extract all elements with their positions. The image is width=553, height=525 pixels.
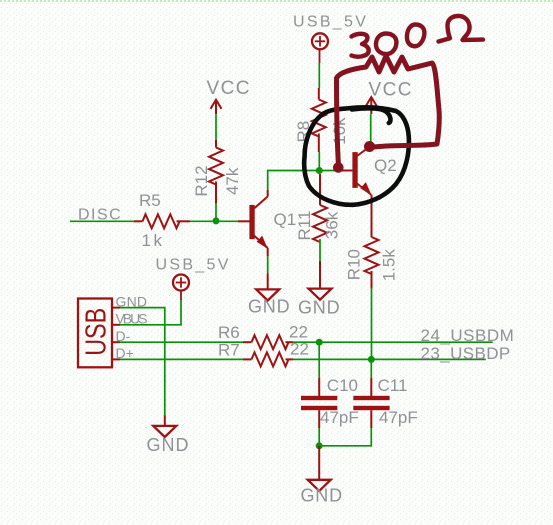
label 24_USBDM	[421, 326, 515, 345]
label VCC (left)	[207, 78, 251, 99]
annotation red blob at Q2 base	[333, 162, 344, 173]
label R7	[218, 340, 240, 359]
supply USB_5V (mid) symbol	[173, 275, 189, 301]
pin D+ stub	[112, 358, 120, 360]
label C10	[327, 376, 358, 395]
top border dotted green line	[0, 0, 553, 2]
svg-text:USB_5V: USB_5V	[156, 256, 231, 273]
svg-text:24_USBDM: 24_USBDM	[421, 326, 515, 345]
svg-text:47k: 47k	[223, 167, 242, 195]
svg-text:36k: 36k	[323, 211, 342, 239]
wire Q2 emitter to R10	[371, 195, 373, 238]
wire VCC to R12	[215, 114, 217, 140]
ground GND (R11)	[298, 261, 340, 317]
label R6	[218, 323, 240, 342]
svg-text:GND: GND	[147, 435, 190, 455]
svg-text:47pF: 47pF	[379, 408, 418, 427]
supply USB_5V (top) symbol	[312, 33, 328, 63]
annotation red box with resistor squiggle	[337, 56, 440, 167]
svg-text:GND: GND	[298, 297, 340, 317]
svg-text:R12: R12	[192, 165, 211, 196]
transistor Q2	[338, 146, 372, 195]
wire R5 to node B	[190, 220, 238, 222]
value 22 (R6)	[289, 323, 308, 342]
resistor R5	[134, 214, 190, 228]
pin D- label	[116, 328, 131, 344]
pin D+ label	[116, 345, 134, 361]
svg-text:GND: GND	[248, 297, 290, 317]
svg-text:C11: C11	[378, 376, 408, 395]
svg-text:R5: R5	[139, 191, 161, 210]
wire R12 to DISC net	[215, 204, 217, 222]
pin GND stub	[112, 307, 120, 309]
annotation red 300 text	[352, 25, 425, 57]
annotation red blob at Q2 collector	[364, 141, 375, 152]
value 1k (R5)	[142, 231, 165, 250]
node E junction (cap gnd)	[316, 442, 323, 449]
label R12	[192, 165, 211, 196]
node C junction (USBDM/C10)	[316, 339, 323, 346]
svg-text:C10: C10	[327, 376, 358, 395]
annotation black circle around Q2	[304, 107, 409, 204]
wire Q1 emitter to GND	[267, 256, 269, 273]
resistor R8	[312, 88, 326, 152]
node D junction (USBDP/R10/C11)	[368, 356, 375, 363]
ground GND (Q1)	[248, 273, 290, 316]
wire D+ to R7	[120, 358, 243, 360]
svg-text:23_USBDP: 23_USBDP	[421, 344, 511, 363]
svg-text:R7: R7	[218, 340, 240, 359]
pin VBUS label	[116, 311, 148, 327]
pin D- stub	[112, 341, 120, 343]
wire DISC to R5	[70, 220, 134, 222]
resistor R10	[365, 237, 379, 289]
svg-text:R10: R10	[344, 249, 363, 280]
value 47k (R12)	[223, 167, 242, 195]
svg-text:1k: 1k	[142, 231, 165, 250]
connector USB body	[78, 299, 113, 368]
label C11	[378, 376, 408, 395]
label R8	[294, 121, 313, 143]
label R10	[344, 249, 363, 280]
wire GND pin	[120, 308, 165, 416]
label VCC (right)	[369, 80, 413, 101]
ground GND (caps)	[301, 446, 343, 506]
svg-text:GND: GND	[301, 486, 343, 506]
node B junction	[213, 217, 220, 224]
wire D- to R6	[120, 341, 243, 343]
svg-text:USB: USB	[81, 308, 113, 356]
supply USB_5V (mid) label	[156, 256, 231, 273]
value 47pF (C11)	[379, 408, 418, 427]
svg-text:USB_5V: USB_5V	[293, 14, 368, 31]
wire USB_5V to R8	[318, 63, 320, 88]
supply VCC (left) arrow	[211, 100, 222, 115]
pin GND label	[116, 293, 148, 309]
resistor R11	[313, 174, 327, 242]
value 47pF (C10)	[320, 408, 359, 427]
supply VCC (right) arrow	[366, 97, 377, 114]
ground GND (USB)	[147, 415, 190, 455]
capacitor C11	[353, 378, 389, 428]
wire node A to Q2 base	[319, 170, 338, 172]
node A junction	[316, 167, 323, 174]
wire USB_5V to VBUS	[120, 300, 181, 325]
svg-text:47pF: 47pF	[320, 408, 359, 427]
wire Q1 collector up	[268, 171, 320, 191]
value 22 (R7)	[290, 340, 309, 359]
annotation red ohm symbol	[439, 16, 484, 42]
svg-text:Q1: Q1	[274, 210, 297, 229]
label R5	[139, 191, 161, 210]
wire VCC to Q2 collector	[370, 114, 372, 146]
wire USBDP net	[293, 358, 486, 360]
transistor Q1	[238, 190, 268, 256]
wire R10 to USBDP net	[371, 289, 373, 360]
capacitor C10	[301, 378, 337, 428]
resistor R6	[243, 335, 293, 349]
wire R8 to node A	[318, 152, 320, 171]
label DISC	[78, 207, 122, 224]
svg-text:1.5k: 1.5k	[380, 249, 399, 282]
svg-text:VCC: VCC	[207, 78, 251, 99]
value 1.5k (R10)	[380, 249, 399, 282]
wire USBDM net	[293, 341, 493, 343]
resistor R7	[243, 352, 293, 366]
resistor R12	[209, 140, 223, 204]
label Q1	[274, 210, 297, 229]
value 36k (R11)	[323, 211, 342, 239]
svg-text:VCC: VCC	[369, 80, 413, 101]
svg-text:R11: R11	[295, 211, 314, 241]
label Q2	[374, 156, 397, 175]
pin VBUS stub	[112, 324, 120, 326]
svg-text:VBUS: VBUS	[116, 311, 148, 327]
wire C11 top	[370, 359, 372, 378]
label R11	[295, 211, 314, 241]
wire caps to GND node	[319, 428, 371, 446]
wire C10 top	[318, 342, 320, 378]
svg-text:R6: R6	[218, 323, 240, 342]
label 23_USBDP	[421, 344, 511, 363]
wire R11 to GND	[319, 239, 321, 261]
svg-text:Q2: Q2	[374, 156, 397, 175]
value 10k (R8)	[330, 117, 349, 145]
supply USB_5V (top) label	[293, 14, 368, 31]
